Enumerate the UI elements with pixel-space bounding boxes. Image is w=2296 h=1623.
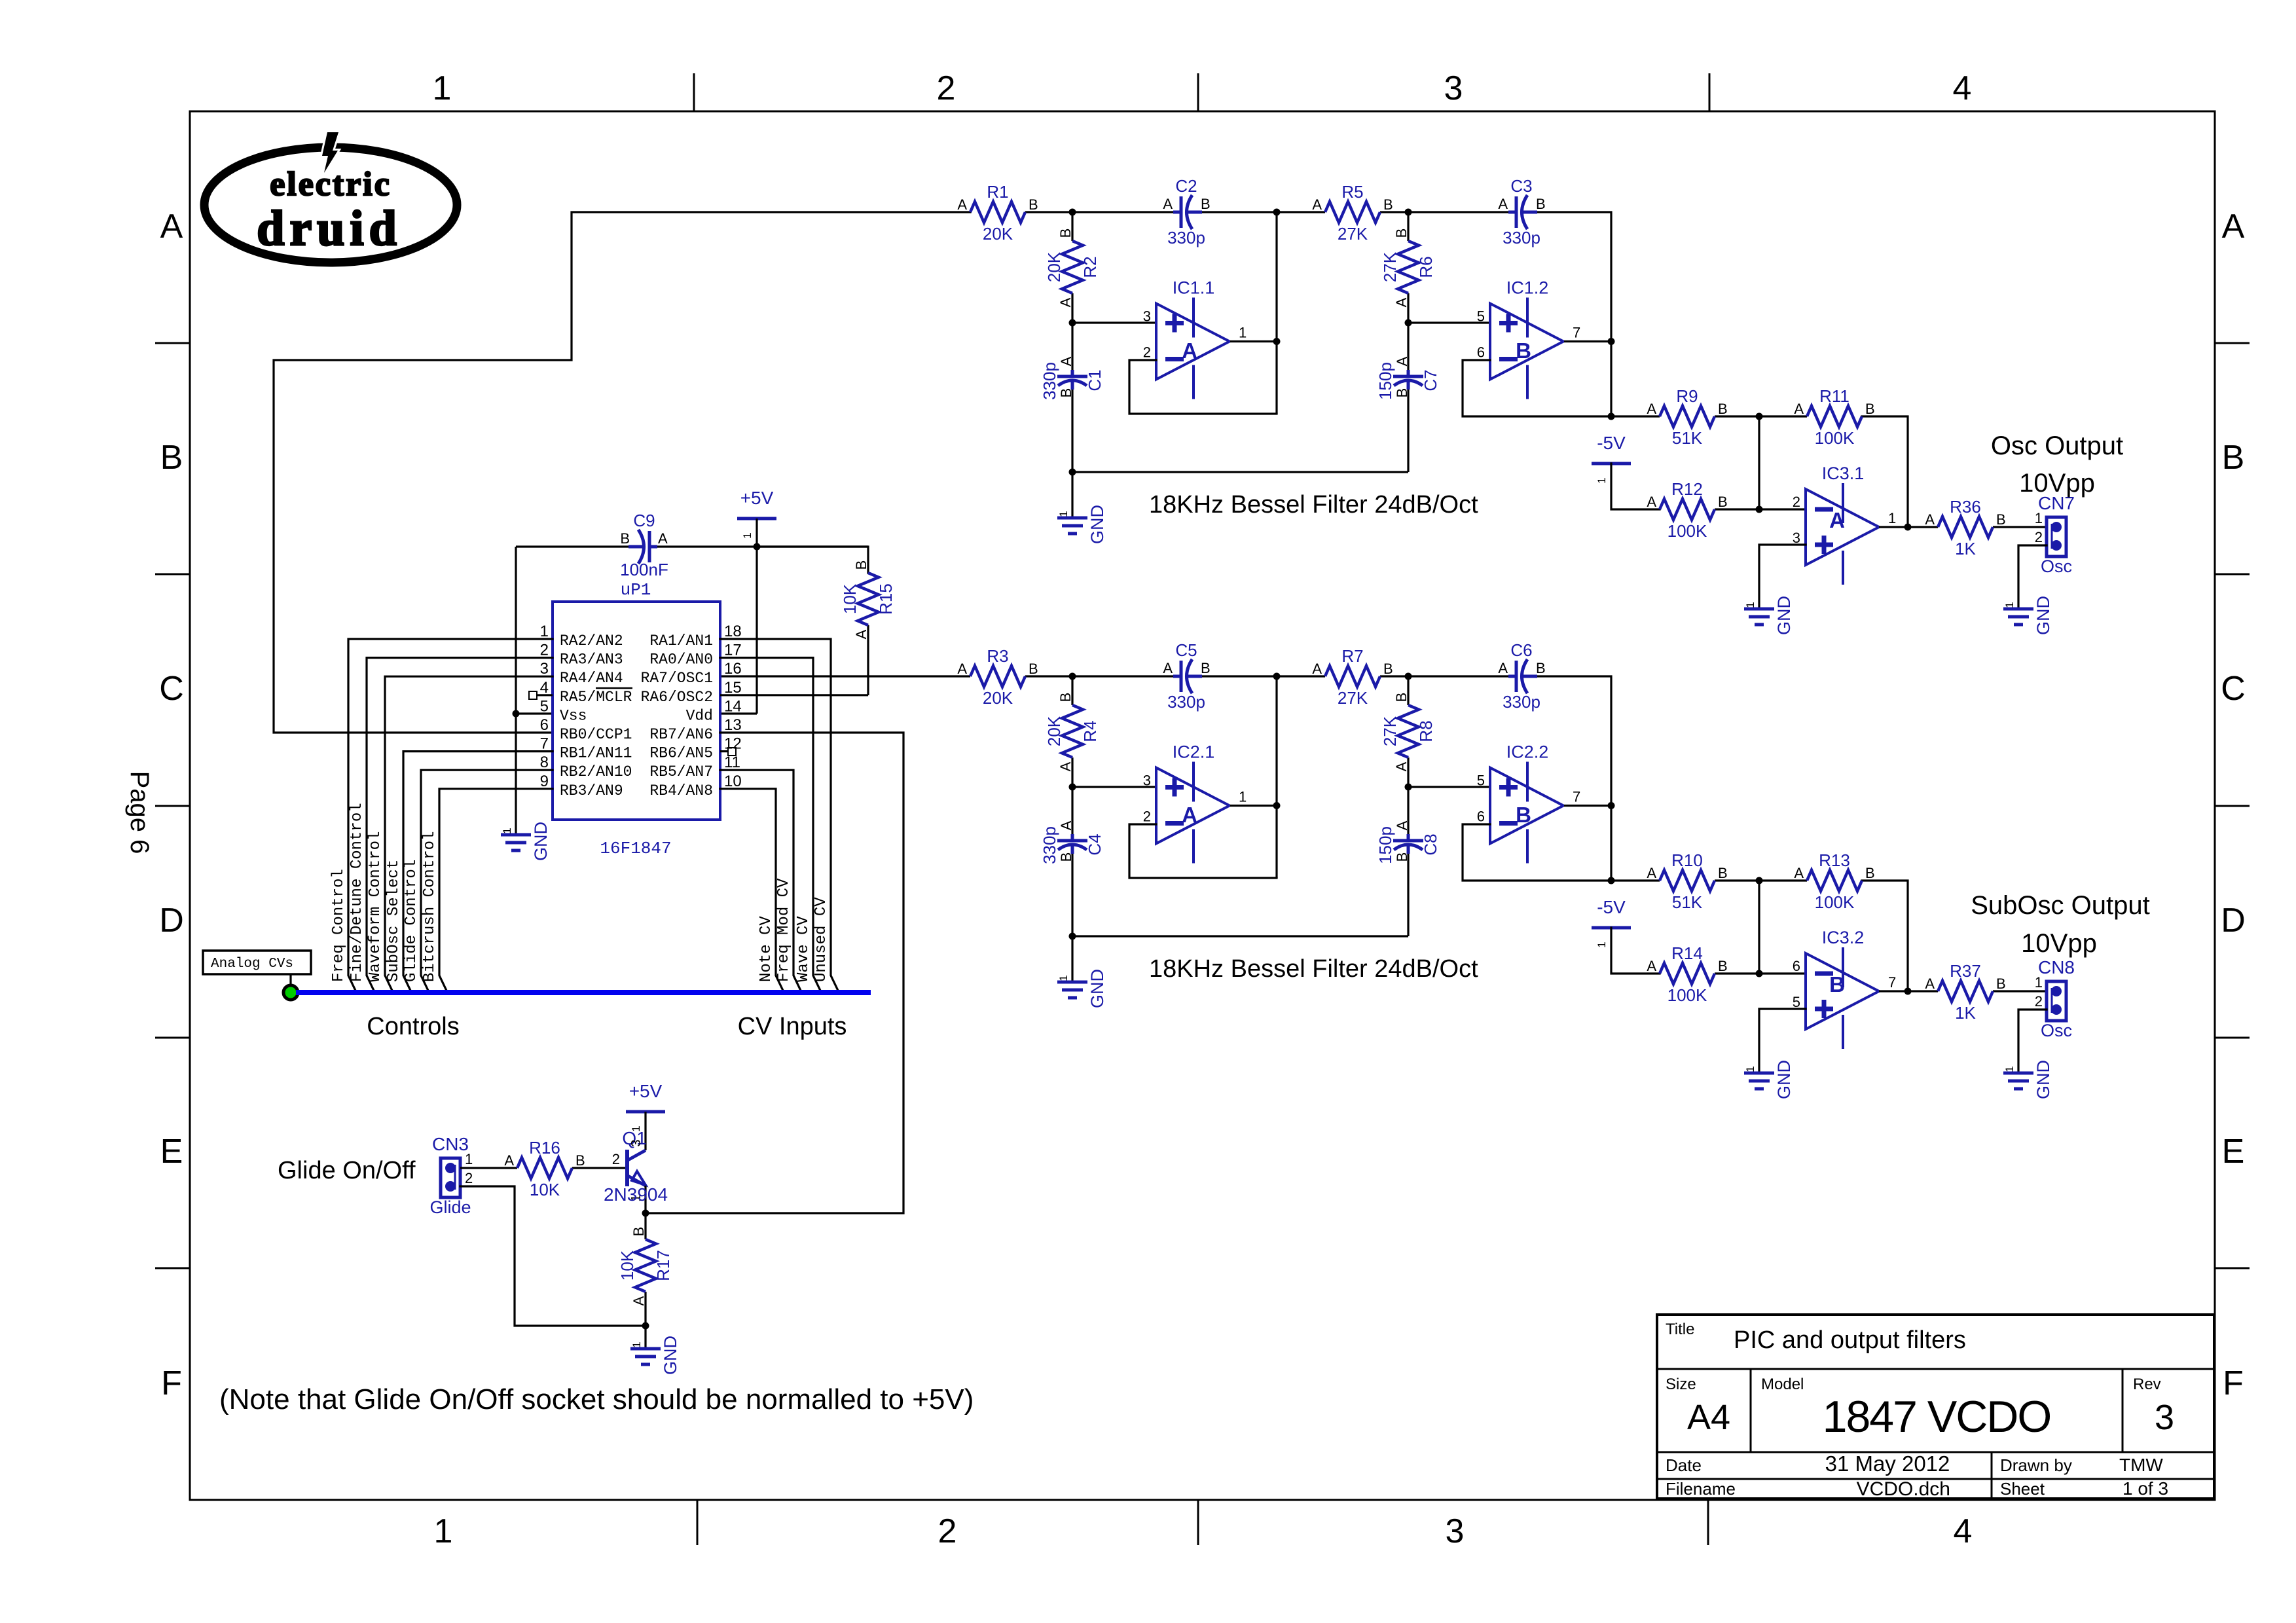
svg-text:R10: R10: [1671, 850, 1703, 870]
wire C2.B to R5.A: [1189, 211, 1325, 213]
svg-text:1: 1: [1595, 477, 1608, 483]
svg-text:RA0/AN0: RA0/AN0: [649, 651, 713, 668]
wire IC2.1 pin3: [1072, 786, 1156, 788]
svg-text:B: B: [1383, 661, 1393, 677]
wire R16.B to Q1 base: [572, 1167, 625, 1169]
resistor R36: [1925, 497, 2005, 558]
svg-text:27K: 27K: [1338, 224, 1368, 244]
svg-text:330p: 330p: [1040, 362, 1059, 400]
resistor R4: [1044, 693, 1100, 772]
svg-text:C2: C2: [1175, 176, 1197, 196]
column tick bottom 2/3: [1197, 1500, 1199, 1545]
svg-text:A: A: [1057, 761, 1074, 771]
wire junction R9B down to R12B: [1758, 416, 1760, 509]
svg-text:A: A: [1058, 820, 1074, 830]
svg-text:C: C: [2221, 670, 2246, 708]
svg-text:7: 7: [1573, 789, 1580, 805]
wire R11.B down to out: [1862, 416, 1908, 527]
wire R2 top lead: [1071, 212, 1073, 241]
svg-text:1: 1: [1744, 1066, 1757, 1072]
op-amp IC2.2: [1477, 742, 1581, 864]
svg-text:100nF: 100nF: [620, 560, 668, 579]
svg-text:Model: Model: [1761, 1376, 1804, 1393]
op-amp IC1.1: [1143, 278, 1247, 399]
svg-text:330p: 330p: [1167, 228, 1205, 247]
-5V supply bottom: [1592, 897, 1631, 948]
svg-text:B: B: [1516, 803, 1531, 827]
wire GND stem under C4: [1071, 936, 1073, 982]
wire R15 top lead: [757, 547, 868, 573]
svg-text:A: A: [1393, 761, 1410, 771]
wire R14.B to IC3.2 pin6: [1715, 972, 1806, 974]
svg-text:1: 1: [1595, 941, 1608, 947]
svg-text:RB3/AN9: RB3/AN9: [560, 782, 623, 799]
svg-text:GND: GND: [1087, 969, 1107, 1008]
ground CN7: [2003, 596, 2053, 635]
svg-text:CN3: CN3: [432, 1134, 469, 1154]
svg-text:2: 2: [937, 69, 956, 107]
svg-text:E: E: [2222, 1133, 2245, 1171]
svg-text:RA7/OSC1: RA7/OSC1: [641, 670, 713, 687]
junction C2.B node: [1273, 209, 1281, 216]
svg-text:Vdd: Vdd: [686, 707, 713, 724]
wire C9 row right of cap: [657, 545, 868, 547]
capacitor C2: [1163, 176, 1210, 247]
svg-text:18: 18: [724, 623, 742, 640]
svg-text:3: 3: [1793, 530, 1800, 546]
svg-text:20K: 20K: [983, 224, 1013, 244]
svg-text:IC3.2: IC3.2: [1822, 928, 1865, 947]
svg-text:RB0/CCP1: RB0/CCP1: [560, 726, 632, 743]
svg-text:Wave CV: Wave CV: [795, 916, 812, 982]
svg-text:1K: 1K: [1955, 1003, 1976, 1023]
svg-text:3: 3: [629, 1139, 644, 1146]
svg-text:16: 16: [724, 660, 742, 678]
junction R6.A-pin5-C7.A: [1405, 319, 1412, 327]
svg-text:B: B: [620, 530, 630, 547]
svg-text:10K: 10K: [840, 583, 860, 614]
wire R8 leads: [1407, 676, 1409, 705]
Analog CVs flag: [203, 951, 311, 986]
capacitor C9: [620, 511, 668, 579]
wire R13.B down: [1862, 881, 1908, 991]
svg-text:RB5/AN7: RB5/AN7: [649, 763, 713, 780]
ground under C4: [1057, 969, 1107, 1008]
svg-text:Bitcrush Control: Bitcrush Control: [421, 831, 439, 982]
capacitor C5: [1163, 640, 1210, 712]
row tick right: [2215, 1037, 2250, 1039]
capacitor C4: [1040, 820, 1104, 864]
op-amp IC3.1: [1793, 464, 1897, 585]
svg-text:31 May 2012: 31 May 2012: [1825, 1451, 1950, 1476]
svg-text:RB4/AN8: RB4/AN8: [649, 782, 713, 799]
connector CN7: [2035, 493, 2075, 576]
svg-text:Vss: Vss: [560, 707, 587, 724]
svg-text:IC2.2: IC2.2: [1506, 742, 1549, 762]
junction R5.B-R6: [1405, 209, 1412, 216]
svg-text:A: A: [1647, 494, 1656, 510]
column tick top 2/3: [1197, 73, 1199, 111]
resistor R8: [1380, 693, 1436, 772]
transistor Q1 2N3904: [604, 1112, 668, 1213]
svg-text:10K: 10K: [617, 1250, 637, 1281]
column tick bottom 3/4: [1707, 1500, 1709, 1545]
junction IC1.2 out: [1608, 338, 1615, 345]
svg-text:B: B: [1718, 865, 1728, 881]
junction R17.A node: [642, 1322, 649, 1330]
svg-text:RA6/OSC2: RA6/OSC2: [641, 689, 713, 706]
row tick left: [155, 1267, 190, 1269]
resistor R10: [1647, 850, 1727, 912]
svg-text:CN8: CN8: [2038, 957, 2075, 977]
svg-text:27K: 27K: [1380, 716, 1400, 746]
junction feedback C3 node: [1608, 413, 1615, 420]
svg-text:B: B: [1029, 661, 1038, 677]
svg-text:1: 1: [1744, 602, 1757, 608]
svg-text:IC1.2: IC1.2: [1506, 278, 1549, 298]
svg-text:R12: R12: [1671, 479, 1703, 499]
wire IC2.1 feedback: [1129, 824, 1277, 878]
op-amp IC2.1: [1143, 742, 1247, 864]
svg-text:B: B: [1829, 972, 1845, 996]
row tick right: [2215, 342, 2250, 344]
resistor R14: [1647, 943, 1727, 1005]
svg-text:D: D: [2221, 902, 2246, 939]
svg-text:51K: 51K: [1672, 892, 1703, 912]
svg-text:A: A: [1794, 401, 1804, 417]
wire IC2.2 feedback: [1463, 824, 1611, 881]
svg-text:C7: C7: [1421, 369, 1440, 391]
svg-text:2: 2: [938, 1512, 957, 1550]
junction +5V C9: [754, 543, 761, 551]
wire/net Note CV: [720, 789, 784, 992]
svg-text:R9: R9: [1676, 386, 1698, 406]
row tick left: [155, 574, 190, 575]
svg-text:Glide Control: Glide Control: [403, 860, 420, 982]
svg-text:B: B: [1996, 511, 2006, 528]
svg-text:27K: 27K: [1380, 251, 1400, 282]
svg-text:C1: C1: [1085, 369, 1104, 391]
svg-text:B: B: [1718, 958, 1728, 974]
svg-text:1847 VCDO: 1847 VCDO: [1823, 1392, 2051, 1442]
svg-text:B: B: [1394, 388, 1410, 398]
svg-text:R14: R14: [1671, 943, 1703, 963]
svg-text:A: A: [1498, 660, 1508, 676]
svg-text:6: 6: [1477, 344, 1485, 361]
svg-text:4: 4: [1954, 1512, 1973, 1550]
svg-text:10Vpp: 10Vpp: [2021, 929, 2097, 958]
wire R7.B to C6.A: [1380, 675, 1508, 677]
bus Analog CVs: [296, 990, 871, 995]
svg-text:5: 5: [540, 697, 549, 715]
resistor R37: [1925, 961, 2005, 1023]
pin4 no-connect stub: [529, 691, 553, 699]
capacitor C8: [1376, 820, 1440, 864]
svg-text:2N3904: 2N3904: [604, 1184, 668, 1205]
svg-text:GND: GND: [1087, 505, 1107, 544]
wire R2 bottom lead: [1071, 293, 1073, 323]
svg-text:100K: 100K: [1667, 985, 1707, 1005]
wire R12.B to IC3.1 pin2: [1715, 508, 1806, 510]
svg-text:2: 2: [612, 1151, 620, 1167]
svg-text:20K: 20K: [1044, 251, 1064, 282]
junction IC1.1 out: [1273, 338, 1281, 345]
svg-text:2: 2: [1793, 494, 1800, 510]
svg-text:A: A: [1182, 803, 1197, 827]
svg-text:R16: R16: [529, 1138, 560, 1158]
wire C5.B to R7.A: [1189, 675, 1325, 677]
svg-text:B: B: [1393, 693, 1410, 702]
svg-text:Osc: Osc: [2041, 556, 2072, 576]
svg-text:7: 7: [540, 735, 549, 753]
wire C1.B to C7.B bottom row: [1072, 471, 1408, 473]
svg-text:1: 1: [434, 1512, 453, 1550]
svg-text:B: B: [1029, 196, 1038, 213]
svg-text:1K: 1K: [1955, 539, 1976, 558]
row tick left: [155, 1037, 190, 1039]
border frame: [190, 111, 2215, 1500]
svg-text:GND: GND: [2033, 596, 2053, 635]
wire R10 row: [1611, 879, 1660, 881]
wire IC1.1 output: [1230, 340, 1277, 342]
svg-text:A: A: [160, 208, 183, 246]
svg-text:A: A: [853, 629, 869, 639]
svg-text:1: 1: [2003, 1066, 2016, 1072]
svg-text:11: 11: [724, 754, 740, 771]
svg-text:Sheet: Sheet: [2000, 1479, 2045, 1499]
svg-text:SubOsc Select: SubOsc Select: [385, 860, 403, 982]
wire GND stem Q1: [644, 1326, 646, 1349]
svg-text:3: 3: [1444, 69, 1463, 107]
svg-text:B: B: [1536, 196, 1546, 212]
svg-text:2: 2: [2035, 529, 2043, 545]
svg-text:A: A: [1163, 196, 1173, 212]
wire R36.B to CN7: [1993, 526, 2047, 528]
svg-text:3: 3: [540, 660, 549, 678]
svg-text:A: A: [1794, 865, 1804, 881]
resistor R17: [617, 1227, 673, 1306]
wire R15 bottom lead: [867, 625, 869, 695]
row tick right: [2215, 805, 2250, 807]
wire CN7 pin2 to GND: [2018, 545, 2047, 609]
svg-text:RA1/AN1: RA1/AN1: [649, 632, 713, 649]
svg-text:1: 1: [630, 1341, 643, 1347]
svg-text:GND: GND: [661, 1336, 680, 1375]
svg-text:B: B: [1536, 660, 1546, 676]
svg-text:Glide: Glide: [429, 1197, 471, 1217]
wire IC1.1 feedback: [1129, 360, 1277, 414]
svg-text:A: A: [1647, 401, 1656, 417]
svg-text:27K: 27K: [1338, 688, 1368, 708]
wire R37.B to CN8: [1993, 990, 2047, 992]
+5V supply chip: [737, 488, 776, 539]
row tick right: [2215, 1267, 2250, 1269]
svg-text:B: B: [1057, 228, 1074, 238]
svg-text:+5V: +5V: [740, 488, 774, 508]
svg-text:150p: 150p: [1376, 826, 1395, 864]
svg-text:-5V: -5V: [1597, 897, 1626, 917]
junction IC3.2 out: [1904, 988, 1912, 995]
svg-text:A: A: [1182, 338, 1197, 363]
wire CN3 pin1 to R16.A: [460, 1167, 517, 1169]
svg-text:10Vpp: 10Vpp: [2019, 469, 2095, 498]
svg-text:12: 12: [724, 735, 742, 753]
svg-text:51K: 51K: [1672, 428, 1703, 448]
svg-text:B: B: [1718, 494, 1728, 510]
svg-text:18KHz Bessel Filter 24dB/Oct: 18KHz Bessel Filter 24dB/Oct: [1149, 491, 1478, 519]
wire/net Unused CV: [720, 639, 839, 992]
wire C3.B down to feedback row: [1522, 212, 1611, 416]
title block: [1657, 1315, 2214, 1500]
svg-text:RB7/AN6: RB7/AN6: [649, 726, 713, 743]
microcontroller uP1 16F1847: [540, 580, 742, 858]
svg-text:A: A: [1925, 511, 1935, 528]
svg-text:3: 3: [2155, 1398, 2174, 1437]
wire C1 leads: [1071, 323, 1073, 371]
svg-text:R1: R1: [987, 182, 1008, 202]
svg-text:A: A: [1394, 820, 1410, 830]
wire R3.B to C5.A: [1025, 675, 1176, 677]
svg-text:10K: 10K: [530, 1180, 560, 1199]
svg-text:druid: druid: [257, 201, 402, 256]
wire R9 row: [1611, 415, 1660, 417]
ground Q1: [630, 1336, 680, 1375]
svg-text:A: A: [504, 1152, 514, 1169]
svg-text:C4: C4: [1085, 833, 1104, 855]
column tick bottom 1/2: [697, 1500, 699, 1545]
wire CN8 pin2 to GND: [2018, 1010, 2047, 1073]
svg-text:3: 3: [1143, 773, 1151, 789]
resistor R5: [1312, 182, 1393, 244]
svg-text:330p: 330p: [1503, 692, 1540, 712]
svg-text:A: A: [658, 530, 668, 547]
svg-text:A: A: [1647, 865, 1656, 881]
svg-text:R15: R15: [876, 583, 896, 615]
wire IC1.1 pin3: [1072, 321, 1156, 323]
resistor R16: [504, 1138, 585, 1199]
svg-text:100K: 100K: [1815, 892, 1855, 912]
svg-text:C8: C8: [1421, 833, 1440, 855]
junction R1.B-R2-C2.A: [1069, 209, 1076, 216]
resistor R12: [1647, 479, 1727, 541]
svg-text:Unused CV: Unused CV: [812, 897, 830, 982]
svg-text:E: E: [160, 1133, 183, 1171]
resistor R11: [1794, 386, 1874, 448]
wire C7 leads: [1407, 323, 1409, 371]
svg-text:1: 1: [1057, 975, 1070, 981]
wire IC2.1 node vertical: [1275, 676, 1277, 878]
ground CN8: [2003, 1060, 2053, 1099]
wire/net Freq Mod CV: [720, 770, 801, 992]
svg-text:20K: 20K: [983, 688, 1013, 708]
wire IC1.2 pin5: [1408, 321, 1490, 323]
wire pin15 RA6/OSC2: [720, 694, 868, 696]
svg-text:1: 1: [540, 623, 549, 640]
wire left vertical to Vss and GND: [515, 547, 517, 835]
svg-text:A: A: [1058, 356, 1074, 366]
wire IC2.2 output: [1564, 805, 1611, 807]
svg-text:R7: R7: [1341, 646, 1363, 666]
svg-text:GND: GND: [2033, 1060, 2053, 1099]
junction pin5 IC2.2: [1405, 784, 1412, 791]
svg-text:F: F: [2223, 1364, 2244, 1402]
wire +5V stem to Vdd: [756, 519, 757, 714]
wire C9 row left: [516, 545, 630, 547]
svg-text:4: 4: [540, 679, 549, 697]
svg-text:GND: GND: [1774, 596, 1794, 635]
junction IC2.2 out: [1608, 802, 1615, 809]
svg-text:B: B: [1865, 401, 1875, 417]
svg-text:A: A: [1163, 660, 1173, 676]
svg-text:15: 15: [724, 679, 742, 697]
svg-text:2: 2: [465, 1170, 473, 1186]
resistor R6: [1380, 228, 1436, 308]
column tick top 1/2: [693, 73, 695, 111]
row tick right: [2215, 574, 2250, 575]
junction C5.B node: [1273, 673, 1281, 680]
wire/net Waveform Control: [367, 676, 553, 992]
wire R17 leads: [644, 1213, 646, 1239]
svg-text:1: 1: [1057, 511, 1070, 517]
svg-text:5: 5: [1793, 994, 1800, 1010]
svg-text:7: 7: [1888, 974, 1896, 991]
svg-text:(Note that Glide On/Off socket: (Note that Glide On/Off socket should be…: [219, 1383, 974, 1415]
ground IC3.1 pin3: [1744, 596, 1794, 635]
svg-text:2: 2: [540, 642, 549, 659]
row tick left: [155, 342, 190, 344]
svg-text:B: B: [160, 439, 183, 477]
resistor R15: [840, 560, 896, 640]
svg-text:R8: R8: [1416, 720, 1436, 742]
svg-text:RB2/AN10: RB2/AN10: [560, 763, 632, 780]
wire/net SubOsc Select: [385, 752, 553, 992]
svg-text:6: 6: [1793, 958, 1800, 974]
wire/net Wave CV: [720, 658, 821, 992]
svg-text:6: 6: [1477, 809, 1485, 825]
svg-text:Date: Date: [1666, 1455, 1702, 1475]
wire junction R10B down: [1758, 881, 1760, 974]
svg-text:RA4/AN4: RA4/AN4: [560, 670, 623, 687]
svg-text:R6: R6: [1416, 256, 1436, 278]
svg-text:Osc Output: Osc Output: [1991, 431, 2123, 460]
svg-text:330p: 330p: [1040, 826, 1059, 864]
svg-text:B: B: [1394, 852, 1410, 862]
junction IC3.1 out: [1904, 524, 1912, 531]
svg-text:330p: 330p: [1503, 228, 1540, 247]
svg-text:PIC and output filters: PIC and output filters: [1734, 1326, 1966, 1354]
svg-text:1: 1: [2003, 602, 2016, 608]
svg-text:B: B: [1057, 693, 1074, 702]
junction R9.B: [1756, 413, 1763, 420]
svg-text:B: B: [1516, 338, 1531, 363]
svg-text:Drawn by: Drawn by: [2000, 1455, 2072, 1475]
wire R4 leads: [1071, 676, 1073, 705]
svg-text:R37: R37: [1950, 961, 1981, 981]
svg-text:RA2/AN2: RA2/AN2: [560, 632, 623, 649]
capacitor C7: [1376, 356, 1440, 400]
svg-text:100K: 100K: [1815, 428, 1855, 448]
svg-text:GND: GND: [1774, 1060, 1794, 1099]
svg-text:A: A: [957, 661, 967, 677]
capacitor C1: [1040, 356, 1104, 400]
junction R14.B: [1756, 970, 1763, 977]
pin12 no-connect stub: [720, 748, 736, 756]
svg-text:R36: R36: [1950, 497, 1981, 517]
svg-text:Freq Mod CV: Freq Mod CV: [775, 878, 793, 982]
svg-text:Osc: Osc: [2041, 1021, 2072, 1040]
wire/net Glide Control: [403, 770, 553, 992]
svg-text:C: C: [159, 670, 184, 708]
